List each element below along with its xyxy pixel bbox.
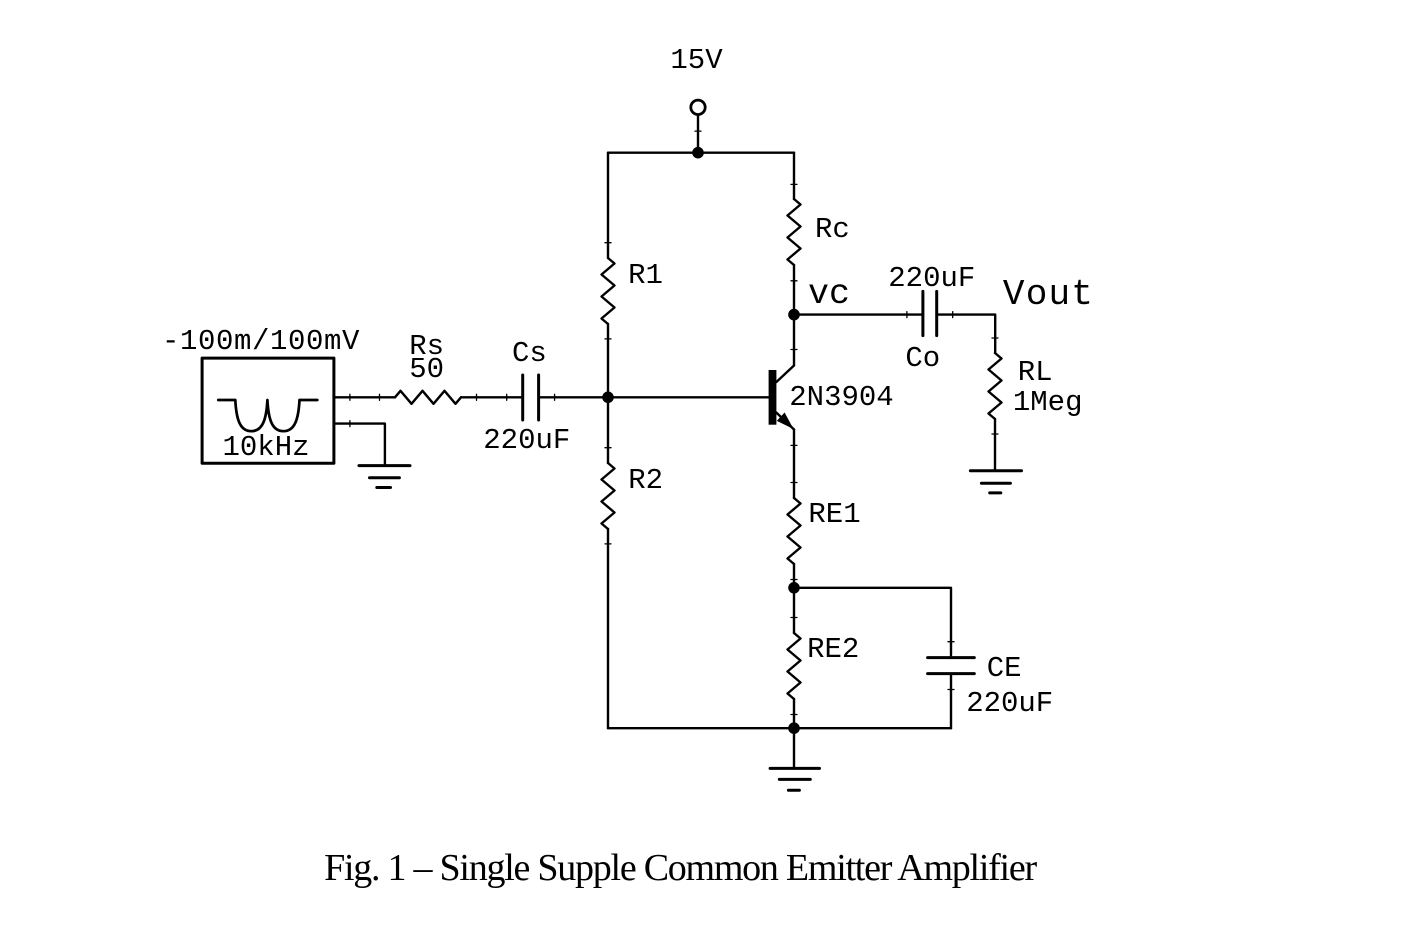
- wire bottom ground stub: [793, 728, 795, 768]
- svg-text:RL: RL: [1018, 356, 1053, 389]
- capacitor CE: [928, 642, 975, 690]
- caption Fig. 1: [324, 847, 1037, 889]
- wire left rail upper: [607, 153, 609, 258]
- wire Cs to base node: [540, 396, 608, 398]
- label CE: [987, 652, 1022, 685]
- node vc junction dot: [788, 309, 800, 321]
- node supply junction dot: [692, 147, 704, 159]
- svg-text:50: 50: [409, 353, 444, 386]
- label CE value 220uF: [966, 687, 1053, 720]
- svg-text:CE: CE: [987, 652, 1022, 685]
- pin tick supply: [695, 130, 701, 132]
- label RL: [1018, 356, 1053, 389]
- pin tick Cs left: [506, 394, 508, 400]
- voltage source V1 box: [202, 358, 334, 463]
- ground left: [359, 466, 410, 488]
- wire node E to RE2: [793, 588, 795, 633]
- resistor R2: [602, 448, 615, 544]
- pin tick Co right: [952, 312, 954, 318]
- svg-text:RE2: RE2: [807, 633, 859, 666]
- resistor Rc: [788, 184, 801, 280]
- wire left rail lower: [607, 529, 609, 728]
- label Rc: [815, 213, 850, 246]
- svg-text:R1: R1: [628, 259, 663, 292]
- wire right rail upper: [793, 153, 795, 199]
- svg-text:-100m/100mV: -100m/100mV: [162, 325, 360, 358]
- wire vc to Co: [794, 313, 921, 315]
- capacitor Co: [923, 291, 937, 335]
- svg-text:Fig. 1 – Single Supple Common: Fig. 1 – Single Supple Common Emitter Am…: [324, 847, 1037, 889]
- label Cs value 220uF: [483, 424, 570, 457]
- node bottom junction dot: [788, 722, 800, 734]
- label Rs value 50: [409, 353, 444, 386]
- transistor Q1 2N3904: [769, 315, 797, 446]
- wire source plus out: [334, 396, 395, 398]
- label Rs: [409, 330, 444, 363]
- pin tick Cs right: [554, 394, 556, 400]
- label RL value 1Meg: [1013, 386, 1083, 419]
- label vc: [808, 274, 850, 314]
- wire RE2 to bottom: [793, 699, 795, 728]
- resistor RE1: [788, 483, 801, 580]
- label Co: [905, 342, 940, 375]
- resistor RL: [989, 338, 1002, 434]
- label 2N3904: [789, 381, 893, 414]
- svg-text:220uF: 220uF: [483, 424, 570, 457]
- wire base: [608, 396, 769, 398]
- ground bottom: [770, 768, 819, 790]
- svg-text:vc: vc: [808, 274, 850, 314]
- wire CE to bottom: [950, 675, 952, 728]
- svg-text:10kHz: 10kHz: [222, 431, 309, 464]
- resistor RE2: [788, 618, 801, 715]
- node base junction dot: [602, 392, 614, 404]
- label Cs: [512, 337, 547, 370]
- svg-text:1Meg: 1Meg: [1013, 386, 1083, 419]
- label 15V: [670, 44, 723, 77]
- svg-text:RE1: RE1: [808, 498, 860, 531]
- svg-text:15V: 15V: [670, 44, 723, 77]
- capacitor Cs: [523, 375, 539, 420]
- label RE2: [807, 633, 859, 666]
- node E junction dot: [788, 582, 800, 594]
- svg-text:220uF: 220uF: [966, 687, 1053, 720]
- svg-text:220uF: 220uF: [888, 262, 975, 295]
- supply terminal circle: [691, 100, 705, 114]
- wire bottom horizontal: [608, 727, 951, 729]
- svg-text:Vout: Vout: [1003, 274, 1094, 315]
- label 10kHz: [222, 431, 309, 464]
- pin tick source plus: [349, 394, 351, 400]
- wire Co to Vout corner: [938, 315, 995, 353]
- wire source minus to ground corner: [334, 424, 385, 466]
- wire supply stub: [697, 116, 699, 153]
- wire Rs to Cs: [461, 396, 521, 398]
- svg-text:2N3904: 2N3904: [789, 381, 893, 414]
- pin tick Co left: [906, 312, 908, 318]
- svg-text:Rc: Rc: [815, 213, 850, 246]
- resistor Rs: [380, 391, 477, 404]
- svg-text:Co: Co: [905, 342, 940, 375]
- label Co value 220uF: [888, 262, 975, 295]
- wire Rc to vc: [793, 265, 795, 315]
- wire RE1 to node E: [793, 564, 795, 588]
- wire node E to CE branch: [794, 588, 951, 656]
- svg-text:R2: R2: [628, 464, 663, 497]
- wire emitter to RE1: [793, 430, 795, 499]
- label RE1: [808, 498, 860, 531]
- ground right: [970, 471, 1021, 493]
- label source -100m/100mV: [162, 325, 360, 358]
- svg-text:Cs: Cs: [512, 337, 547, 370]
- source waveform: [218, 400, 317, 431]
- wire left rail middle: [607, 324, 609, 463]
- label R2: [628, 464, 663, 497]
- wire RL to ground: [994, 419, 996, 471]
- pin tick source minus: [349, 421, 351, 427]
- resistor R1: [602, 243, 615, 339]
- wire top horizontal: [608, 151, 794, 153]
- label R1: [628, 259, 663, 292]
- label Vout: [1003, 274, 1094, 315]
